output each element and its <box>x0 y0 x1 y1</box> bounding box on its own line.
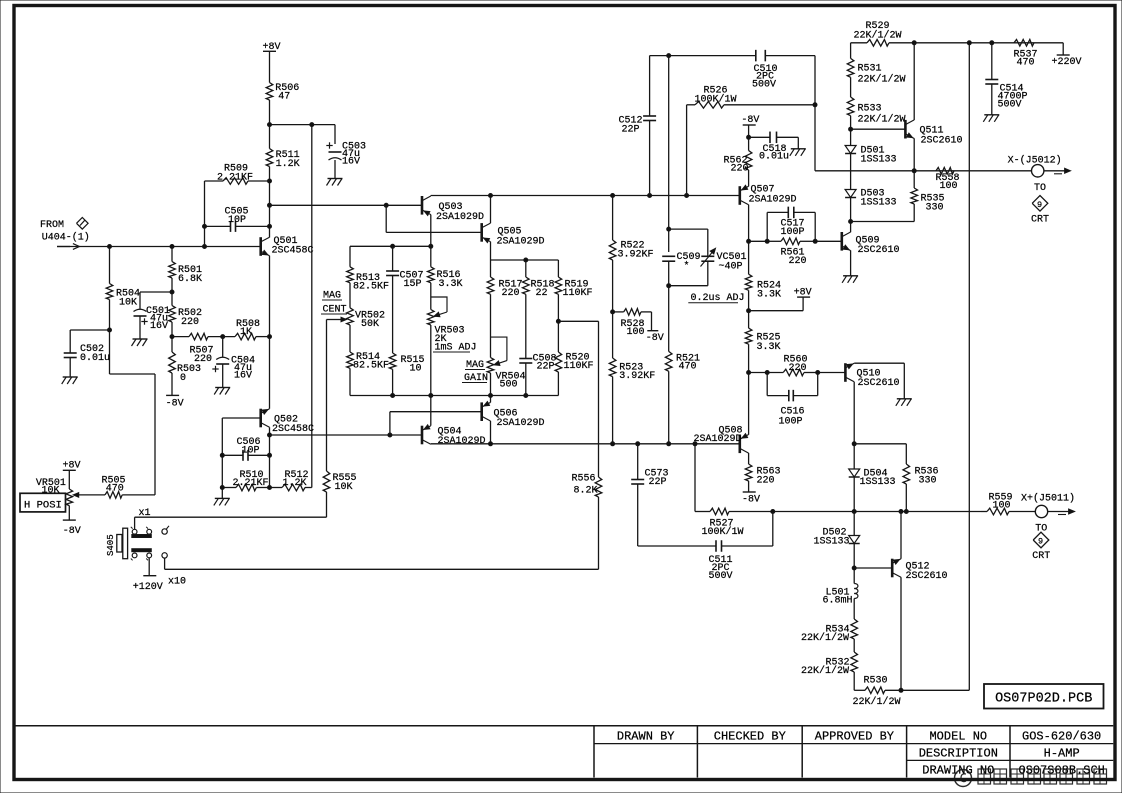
node junction R510/R512 <box>268 486 272 490</box>
wire C510 to X- line <box>814 56 816 171</box>
node junction Q503 base tap <box>268 203 272 207</box>
resistor R518 <box>523 277 555 299</box>
svg-text:X-(J5012): X-(J5012) <box>1008 154 1062 166</box>
svg-text:1.2K: 1.2K <box>276 159 300 170</box>
node junction rail/C508 <box>524 394 528 398</box>
svg-text:2SA1029D: 2SA1029D <box>749 195 797 206</box>
resistor R508 <box>235 319 270 340</box>
node junction C509 loop top <box>667 227 671 231</box>
node -8V above R562 <box>741 115 759 150</box>
svg-text:22P: 22P <box>649 477 667 488</box>
potentiometer VR501 <box>36 478 105 506</box>
node junction Q505 base tap <box>384 203 388 232</box>
svg-text:22K/1/2W: 22K/1/2W <box>801 632 849 644</box>
svg-text:TO: TO <box>1034 183 1046 194</box>
svg-text:0: 0 <box>180 373 186 384</box>
svg-text:S405: S405 <box>106 534 116 556</box>
svg-text:+220V: +220V <box>1052 57 1082 68</box>
resistor R560 <box>749 355 846 376</box>
svg-text:10: 10 <box>410 364 422 375</box>
svg-text:22K/1/2W: 22K/1/2W <box>853 696 901 708</box>
wire VC501 column top <box>668 56 670 252</box>
svg-text:220: 220 <box>502 288 520 299</box>
resistor R524 <box>745 274 781 300</box>
node +120V <box>133 558 163 593</box>
capacitor C517 <box>767 207 815 242</box>
wire Q502 collector down <box>269 427 271 486</box>
wire Q512 collector up <box>900 512 902 559</box>
transistor Q510 <box>845 363 899 389</box>
node junction X+/C511 <box>771 510 775 514</box>
wire upper rail Q503-Q507 <box>431 195 741 197</box>
svg-text:1.2K: 1.2K <box>283 478 307 489</box>
svg-text:2SA1029D: 2SA1029D <box>438 436 486 447</box>
resistor R517 <box>487 277 522 299</box>
node junction C505 left <box>203 224 207 228</box>
svg-text:-8V: -8V <box>646 333 664 344</box>
svg-text:9: 9 <box>1038 537 1043 547</box>
capacitor C514 <box>985 43 1027 115</box>
svg-text:220: 220 <box>181 317 199 328</box>
svg-text:10K: 10K <box>42 485 60 496</box>
wire junction to R512 rail <box>310 123 314 487</box>
svg-text:R531: R531 <box>858 64 882 75</box>
wire X- line <box>815 170 1032 172</box>
diode D501 <box>845 146 896 190</box>
svg-text:22: 22 <box>536 288 548 299</box>
svg-text:22P: 22P <box>537 362 555 373</box>
wire Q501 emitter to R508 node <box>269 256 271 337</box>
node junction C518 tap <box>747 135 751 139</box>
svg-text:3.3K: 3.3K <box>439 279 463 290</box>
node junction X+/Q512coll <box>899 510 903 514</box>
capacitor C511 <box>638 512 773 583</box>
wire junction to C503 <box>270 125 336 144</box>
resistor R503 <box>169 352 201 384</box>
wire Q509 collector up <box>850 222 852 233</box>
svg-text:DESCRIPTION: DESCRIPTION <box>919 746 998 760</box>
wire R501 to R502 <box>170 278 174 306</box>
wire attenuator bottom rail <box>350 395 558 397</box>
resistor R515 <box>389 353 424 396</box>
capacitor C505 <box>205 207 270 232</box>
capacitor C508 <box>519 294 556 395</box>
resistor R523 <box>609 358 655 444</box>
resistor R512 <box>270 470 312 491</box>
transistor Q504 <box>422 425 486 447</box>
svg-text:16V: 16V <box>342 157 360 168</box>
ground below Q509 <box>842 276 858 283</box>
resistor R521 <box>665 286 700 444</box>
ground right of C518 <box>790 149 806 156</box>
wire Q510 collector down <box>853 382 855 444</box>
svg-text:82.5KF: 82.5KF <box>353 361 389 372</box>
node junction C517 left <box>765 239 769 243</box>
resistor R563 <box>745 464 780 487</box>
wire R509 left column <box>204 181 206 247</box>
svg-text:47: 47 <box>278 92 290 103</box>
wire D504/R536 top link <box>854 444 906 464</box>
node X- output terminal <box>1008 154 1071 177</box>
capacitor C509 <box>662 252 700 286</box>
wire R562 to Q507 emitter <box>748 170 750 186</box>
ground below C514 <box>983 115 999 122</box>
wire Q503 base line <box>270 204 423 206</box>
transistor Q509 <box>842 232 900 256</box>
node junction R529/C514 <box>990 41 994 45</box>
svg-text:22K/1/2W: 22K/1/2W <box>854 29 902 41</box>
resistor R502 <box>169 306 202 329</box>
node junction rail/C512 <box>648 194 652 198</box>
diode D504 <box>849 444 896 512</box>
svg-text:DRAWN BY: DRAWN BY <box>617 729 675 743</box>
svg-text:R530: R530 <box>864 676 888 687</box>
svg-text:82.5KF: 82.5KF <box>353 282 389 293</box>
ground below C503 <box>327 179 343 186</box>
node -8V below R503 <box>166 373 184 410</box>
wire R526 left column <box>686 105 688 196</box>
svg-text:+8V: +8V <box>794 288 812 299</box>
resistor R561 <box>749 238 842 267</box>
svg-text:8.2K: 8.2K <box>574 486 598 497</box>
svg-text:1SS133: 1SS133 <box>861 155 897 166</box>
svg-text:220: 220 <box>789 256 807 267</box>
diode D503 <box>845 189 896 222</box>
svg-text:+120V: +120V <box>133 582 163 593</box>
ground below C502 <box>62 377 78 384</box>
node x1 open contact <box>162 526 169 534</box>
wire Q505 base line <box>386 231 482 233</box>
svg-text:3.3K: 3.3K <box>757 342 781 353</box>
node junction rail/R516col <box>429 244 433 248</box>
node +8V above VR501 <box>63 460 81 489</box>
svg-text:3.92KF: 3.92KF <box>618 249 654 260</box>
svg-text:10K: 10K <box>119 298 137 309</box>
svg-text:3.3K: 3.3K <box>757 290 781 301</box>
switch S405 <box>106 527 152 561</box>
wire Q502 emitter up <box>269 337 271 409</box>
wire Q510 emitter to ground <box>854 363 904 399</box>
resistor R532 <box>801 639 858 677</box>
wire X+ line <box>773 511 981 513</box>
svg-text:R556: R556 <box>572 474 596 485</box>
svg-text:1SS133: 1SS133 <box>861 198 897 209</box>
svg-text:OS07P02D.PCB: OS07P02D.PCB <box>995 692 1092 707</box>
node junction R508 right <box>268 335 272 339</box>
node x10 contact <box>162 553 167 558</box>
node junction C505 right <box>268 224 272 228</box>
svg-text:-8V: -8V <box>166 399 184 410</box>
wire Q507 collector column <box>748 205 750 275</box>
capacitor C507 <box>386 246 423 353</box>
wire right bus <box>968 43 970 691</box>
wire attenuator top rail <box>350 245 431 247</box>
wire R504 bottom / C502 branch <box>108 300 112 375</box>
resistor R501 <box>169 247 202 286</box>
svg-text:22K/1/2W: 22K/1/2W <box>858 74 906 86</box>
svg-text:R533: R533 <box>858 104 882 115</box>
svg-text:100P: 100P <box>781 227 805 238</box>
transistor Q511 <box>905 120 962 147</box>
svg-text:22P: 22P <box>622 125 640 136</box>
svg-text:500V: 500V <box>998 100 1022 111</box>
resistor R555 <box>323 320 356 518</box>
svg-text:16V: 16V <box>234 371 252 382</box>
svg-text:H-AMP: H-AMP <box>1044 746 1080 760</box>
resistor R536 <box>903 464 939 512</box>
resistor R511 <box>266 149 299 171</box>
node junction Q502 collector / output line <box>268 433 272 437</box>
potentiometer VR502 <box>347 283 385 330</box>
svg-text:0.01u: 0.01u <box>759 152 789 163</box>
svg-text:-8V: -8V <box>741 115 759 126</box>
wire Q502 base line <box>222 417 260 419</box>
wire x10 line <box>165 558 599 587</box>
wire R522 to R523 <box>611 260 615 358</box>
wire Q511 base line <box>851 128 906 130</box>
resistor R530 <box>853 672 970 708</box>
wire Q509 emitter down <box>850 250 852 275</box>
capacitor C502 <box>64 330 110 377</box>
svg-text:2SC458C: 2SC458C <box>272 424 314 435</box>
node H POSI box <box>20 493 66 512</box>
svg-text:470: 470 <box>679 361 697 372</box>
node junction lowrail/Q506coll <box>489 442 493 446</box>
node junction rail/R526 <box>685 194 689 198</box>
node junction C506 left <box>220 453 224 457</box>
wire Q505 emitter rail <box>491 242 559 277</box>
transistor Q502 <box>261 409 314 435</box>
svg-text:3.92KF: 3.92KF <box>619 371 655 382</box>
svg-text:100: 100 <box>993 501 1011 512</box>
svg-text:50K: 50K <box>361 319 379 330</box>
capacitor C506 <box>222 437 269 461</box>
resistor R526 <box>687 86 815 109</box>
diode D502 <box>814 512 860 584</box>
wire Q512 base line <box>854 567 892 569</box>
node junction R561 tap <box>747 239 751 243</box>
resistor R516 <box>428 246 463 289</box>
transistor Q506 <box>482 402 545 430</box>
svg-text:H POSI: H POSI <box>24 500 62 512</box>
svg-text:2SA1029D: 2SA1029D <box>497 418 545 429</box>
svg-text:6.8K: 6.8K <box>178 274 202 285</box>
node junction C506 right <box>268 453 272 457</box>
node junction rail/R522 <box>611 194 615 198</box>
node junction Q509coll/R535 <box>849 220 853 224</box>
resistor R528 <box>613 309 652 338</box>
node junction C510 line/VC col <box>667 54 671 58</box>
wire R525 to Q508 emitter <box>748 344 750 435</box>
node 0.2us ADJ label <box>688 293 744 304</box>
resistor R519 <box>555 277 592 352</box>
svg-text:2SA1029D: 2SA1029D <box>436 212 484 223</box>
ground below C504 <box>214 388 230 395</box>
node junction input/R504 <box>108 245 112 249</box>
svg-text:220: 220 <box>789 363 807 374</box>
wire R504 to R505 column <box>110 374 156 495</box>
svg-text:500V: 500V <box>752 80 776 91</box>
transistor Q505 <box>482 223 545 247</box>
ground below C501 <box>132 339 148 346</box>
node junction R526 right <box>813 103 817 107</box>
node junction R530/Q512em <box>899 688 903 692</box>
capacitor C573 <box>631 444 668 546</box>
wire input line from U404 <box>57 244 260 250</box>
svg-text:OS07S08B.SCH: OS07S08B.SCH <box>1018 763 1104 777</box>
wire Q505 collector to top rail <box>490 196 492 224</box>
node junction R529/Q511coll <box>912 41 916 45</box>
svg-text:+8V: +8V <box>63 460 81 471</box>
svg-text:330: 330 <box>926 203 944 214</box>
node junction Q512 base tap <box>852 566 856 570</box>
resistor R520 <box>555 352 593 396</box>
resistor R534 <box>801 599 858 644</box>
wire R511 to Q501 collector <box>269 167 271 238</box>
node junction lowrail/R521 <box>667 442 671 446</box>
wire Q501 collector stub <box>269 236 271 238</box>
wire Q506 collector down <box>490 421 492 444</box>
capacitor C510 <box>752 50 815 91</box>
svg-text:100P: 100P <box>779 417 803 428</box>
svg-text:FROM: FROM <box>40 220 64 231</box>
ground below Q510 emitter <box>896 399 912 406</box>
resistor R529 <box>851 21 1064 46</box>
svg-text:0.01u: 0.01u <box>80 353 110 364</box>
resistor R537 <box>1014 40 1038 69</box>
capacitor C516 <box>767 373 818 428</box>
node junction lowrail/R527 <box>693 442 697 446</box>
resistor R506 <box>266 83 299 103</box>
svg-text:330: 330 <box>919 476 937 487</box>
svg-text:220: 220 <box>194 354 212 365</box>
resistor R510 <box>222 470 269 491</box>
capacitor C504 <box>212 337 255 388</box>
svg-text:GOS-620/630: GOS-620/630 <box>1022 729 1101 743</box>
wire Q504 collector to lower rail <box>430 443 432 446</box>
resistor R562 <box>724 151 752 175</box>
svg-text:x1: x1 <box>139 508 151 519</box>
svg-text:2SA1029D: 2SA1029D <box>497 236 545 247</box>
svg-text:100: 100 <box>627 327 645 338</box>
node PCB name box <box>984 684 1104 709</box>
svg-text:1K: 1K <box>240 327 252 338</box>
svg-text:CHECKED BY: CHECKED BY <box>714 729 786 743</box>
resistor R504 <box>106 247 140 309</box>
node junction R560 tap <box>747 371 751 375</box>
svg-text:100K/1W: 100K/1W <box>702 526 744 538</box>
resistor R514 <box>347 325 389 396</box>
wire Q511 collector up <box>913 43 915 120</box>
resistor R525 <box>745 328 780 353</box>
svg-text:-8V: -8V <box>63 526 81 537</box>
title block table <box>14 726 1113 778</box>
svg-text:110KF: 110KF <box>564 361 594 372</box>
node +220V <box>1052 43 1082 68</box>
svg-text:-8V: -8V <box>742 495 760 506</box>
node junction input/R501 <box>170 245 174 249</box>
resistor R559 <box>981 493 1035 515</box>
transistor Q503 <box>422 196 484 223</box>
node junction lowrail/C573 <box>636 442 640 446</box>
svg-text:MODEL NO: MODEL NO <box>929 729 987 743</box>
ground below R510 <box>214 498 230 505</box>
resistor R509 <box>205 164 270 185</box>
wire x1 line <box>135 508 327 529</box>
svg-text:100: 100 <box>940 181 958 192</box>
svg-text:10P: 10P <box>228 215 246 226</box>
node MAG GAIN label <box>462 360 488 384</box>
svg-text:CRT: CRT <box>1031 214 1049 225</box>
node junction R529/rightbus <box>967 41 971 45</box>
node FROM flag <box>40 218 90 244</box>
resistor R535 <box>911 171 945 222</box>
resistor R558 <box>936 168 960 193</box>
node -8V below R563 <box>742 481 760 506</box>
potentiometer VR504 <box>487 294 525 395</box>
capacitor C512 <box>619 56 657 196</box>
svg-text:500: 500 <box>500 380 518 391</box>
svg-text:6.8mH: 6.8mH <box>823 596 853 607</box>
node -8V at R528 <box>646 331 664 345</box>
node junction C517 right <box>813 239 817 243</box>
svg-text:10P: 10P <box>242 445 260 456</box>
svg-text:2SC458C: 2SC458C <box>272 246 314 257</box>
node junction R509 right <box>268 179 272 183</box>
watermark <box>955 769 1107 787</box>
resistor R533 <box>847 77 905 125</box>
wire Q506 emitter to rail <box>490 396 492 403</box>
trimmer VC501 <box>669 229 747 286</box>
svg-text:110KF: 110KF <box>563 288 593 299</box>
svg-text:100K/1W: 100K/1W <box>695 93 737 105</box>
wire C506 left column <box>221 418 223 488</box>
svg-text:2.21KF: 2.21KF <box>217 173 253 184</box>
wire Q502 output line to Q504 base <box>270 434 423 436</box>
node junction R506/R511/C503 <box>268 123 272 127</box>
svg-text:470: 470 <box>1017 57 1035 68</box>
wire lower rail Q504-Q508 <box>431 443 741 445</box>
capacitor C503 <box>326 142 366 179</box>
node junction Q510coll/D504 <box>852 442 856 446</box>
wire R502 to R503 <box>170 322 174 352</box>
capacitor C518 <box>749 132 799 163</box>
wire Q508 collector down <box>748 453 750 464</box>
transistor Q508 <box>694 425 749 453</box>
node junction rail/VR503 <box>429 394 433 398</box>
transistor Q501 <box>261 236 314 257</box>
svg-text:2SC2610: 2SC2610 <box>858 378 900 389</box>
wire branch to Q506 base <box>390 412 482 435</box>
svg-text:*: * <box>684 261 690 273</box>
wire Q503 emitter column <box>430 215 432 247</box>
node X+ output terminal <box>1021 492 1075 517</box>
svg-text:APPROVED BY: APPROVED BY <box>815 729 894 743</box>
svg-text:220: 220 <box>731 164 749 175</box>
svg-text:2.21KF: 2.21KF <box>233 478 269 489</box>
svg-text:15P: 15P <box>404 279 422 290</box>
node junction output line branch <box>388 433 392 437</box>
resistor R527 <box>695 508 773 538</box>
svg-text:2SC2610: 2SC2610 <box>906 571 948 582</box>
svg-text:1SS133: 1SS133 <box>860 477 896 488</box>
node +8V at R524 <box>749 288 812 311</box>
node junction rail/C507 <box>391 244 395 248</box>
svg-text:2SA1029D: 2SA1029D <box>694 434 742 445</box>
wire R506 to junction <box>269 100 271 149</box>
resistor R556 <box>572 321 602 569</box>
resistor R507 <box>172 333 235 365</box>
